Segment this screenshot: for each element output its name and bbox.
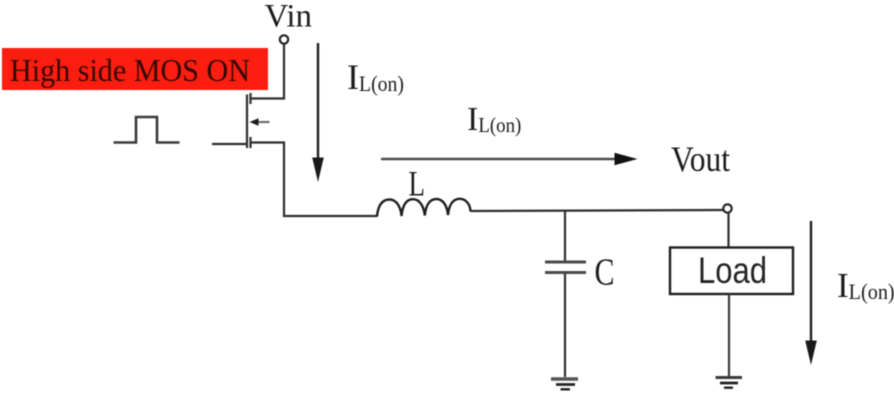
transistor Q1 high-side MOSFET xyxy=(247,93,270,148)
svg-text:C: C xyxy=(595,252,615,294)
ground load xyxy=(716,378,743,388)
wire source to switch node xyxy=(251,143,378,217)
wire gate lead xyxy=(212,143,246,145)
svg-text:IL(on): IL(on) xyxy=(837,266,894,305)
current arrow IL(on) output xyxy=(805,221,817,365)
inductor L xyxy=(377,199,471,217)
gate drive pulse waveform xyxy=(114,117,180,143)
svg-text:IL(on): IL(on) xyxy=(347,57,404,97)
svg-text:Vin: Vin xyxy=(265,0,313,35)
terminal Vin (open circle) xyxy=(280,35,288,43)
wire inductor to Vout node xyxy=(471,210,724,211)
wire Vout to load xyxy=(727,213,729,248)
svg-text:Vout: Vout xyxy=(671,139,730,179)
wire capacitor to ground xyxy=(564,274,566,377)
wire Vout node to capacitor xyxy=(564,211,566,261)
current arrow IL(on) input xyxy=(312,43,324,182)
load box xyxy=(670,248,793,295)
svg-text:Load: Load xyxy=(698,250,767,291)
capacitor C xyxy=(545,262,586,273)
annotation banner: High side MOS ON xyxy=(2,48,268,90)
wire load to ground xyxy=(728,294,730,376)
wire Vin terminal to drain xyxy=(251,44,284,99)
terminal Vout (open circle) xyxy=(723,204,731,212)
svg-text:High side MOS ON: High side MOS ON xyxy=(10,52,250,88)
svg-text:IL(on): IL(on) xyxy=(467,101,521,138)
ground capacitor xyxy=(551,379,578,389)
current arrow IL(on) through inductor xyxy=(381,153,638,165)
svg-text:L: L xyxy=(409,164,426,204)
